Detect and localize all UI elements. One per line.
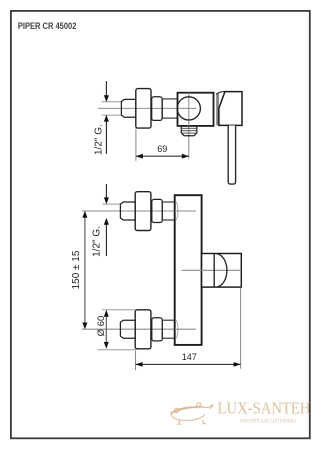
- svg-text:1/2" G.: 1/2" G.: [94, 124, 105, 155]
- svg-text:Ø 60: Ø 60: [96, 316, 107, 337]
- svg-text:ЕВРОПЕЙСКАЯ САНТЕХНИКА: ЕВРОПЕЙСКАЯ САНТЕХНИКА: [240, 417, 296, 425]
- svg-text:PIPER CR 45002: PIPER CR 45002: [18, 21, 77, 31]
- svg-text:LUX-SANTEH: LUX-SANTEH: [218, 398, 311, 417]
- svg-text:147: 147: [182, 352, 197, 362]
- svg-text:1/2" G.: 1/2" G.: [91, 226, 102, 257]
- svg-text:150 ± 15: 150 ± 15: [71, 250, 82, 289]
- svg-text:69: 69: [157, 144, 167, 154]
